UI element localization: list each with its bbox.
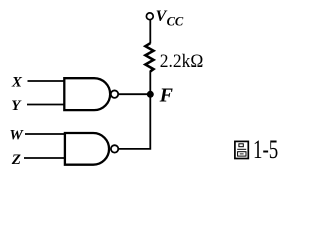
svg-text:CC: CC — [167, 15, 184, 29]
svg-text:W: W — [9, 127, 24, 143]
svg-text:Y: Y — [11, 98, 22, 114]
svg-text:X: X — [11, 75, 23, 91]
svg-text:1-5: 1-5 — [253, 135, 278, 164]
svg-text:F: F — [159, 84, 174, 106]
svg-text:Z: Z — [11, 152, 21, 168]
svg-text:2.2kΩ: 2.2kΩ — [160, 51, 204, 72]
